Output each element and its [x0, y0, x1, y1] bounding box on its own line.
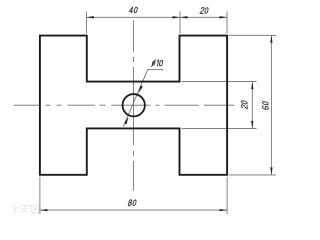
arrow 60 top	[270, 35, 272, 43]
arrow 60 bottom	[270, 167, 272, 175]
centerline vertical	[133, 20, 135, 190]
arrow 80 left	[40, 209, 48, 211]
extension line between dims 40 and 20	[179, 12, 181, 34]
extension line left for dim 80	[39, 177, 41, 214]
extension line left of dim 40	[85, 12, 87, 34]
extension line lower for right dim 20	[182, 127, 257, 129]
extension line upper for right dim 20	[182, 81, 257, 83]
part outline	[40, 36, 227, 175]
leader shoulder	[148, 69, 164, 71]
dimension line right 20	[251, 82, 253, 129]
dimension line 60	[270, 35, 272, 175]
extension line right for dim 80	[226, 177, 228, 214]
extension line bottom for dim 60	[229, 174, 276, 176]
watermark	[12, 205, 39, 213]
arrow 80 right	[220, 209, 228, 211]
extension line top for dim 60	[229, 34, 276, 36]
label right 20	[241, 100, 247, 109]
label 40	[129, 7, 138, 13]
leader arrow upper	[139, 86, 143, 93]
arrow 40 right	[173, 16, 181, 18]
extension line right of top dim 20	[226, 12, 228, 34]
leader arrow lower	[124, 117, 128, 124]
arrow top20 right	[220, 16, 228, 18]
centerline horizontal	[14, 104, 235, 106]
arrow top20 left	[180, 16, 188, 18]
arrow 40 left	[86, 16, 94, 18]
label 80	[128, 200, 136, 206]
label diameter 10	[152, 60, 164, 67]
label top 20	[200, 8, 209, 14]
dimension line top 20	[180, 16, 227, 18]
dimension line 80	[40, 209, 227, 211]
arrow right20 top	[251, 82, 253, 90]
label 60	[262, 101, 268, 110]
hole circle	[123, 94, 145, 116]
leader line for hole diameter	[123, 70, 147, 127]
dimension line 40	[86, 16, 180, 18]
arrow right20 bottom	[251, 121, 253, 128]
